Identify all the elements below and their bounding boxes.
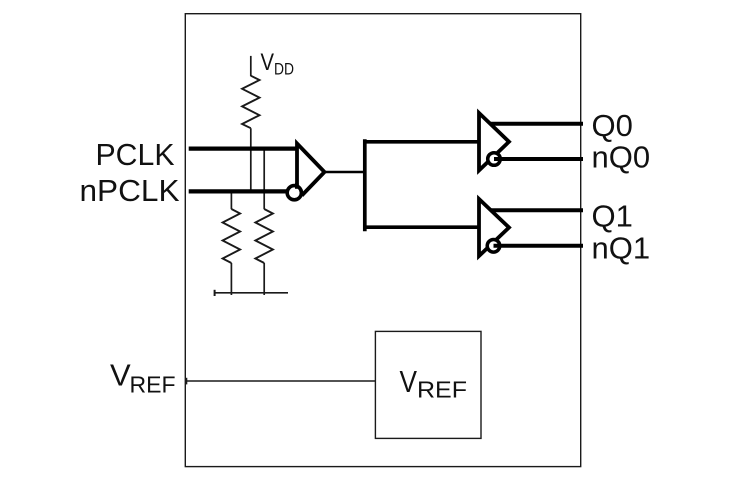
svg-text:V: V	[110, 358, 131, 393]
svg-text:Q1: Q1	[592, 198, 633, 233]
svg-text:REF: REF	[417, 376, 467, 402]
svg-text:V: V	[400, 364, 418, 399]
svg-text:Q0: Q0	[592, 108, 633, 143]
svg-text:DD: DD	[274, 60, 294, 79]
svg-text:nQ0: nQ0	[592, 140, 651, 175]
svg-text:V: V	[261, 49, 275, 76]
svg-text:PCLK: PCLK	[96, 137, 175, 172]
svg-text:nQ1: nQ1	[592, 231, 651, 266]
svg-text:nPCLK: nPCLK	[80, 173, 180, 208]
svg-text:REF: REF	[130, 371, 176, 397]
